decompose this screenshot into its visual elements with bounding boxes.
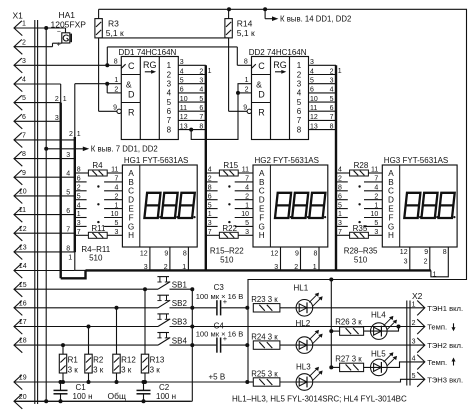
- connector X1 pin 16: [14, 300, 158, 315]
- DD2 data input wire (from DD1 pin13): [189, 84, 251, 140]
- net label "К выв. 14 DD1, DD2": [265, 9, 351, 23]
- resistors R15-R22 network rows: [206, 161, 253, 238]
- HG1 common pin stubs: [140, 247, 189, 271]
- svg-text:G: G: [259, 222, 265, 231]
- svg-text:2: 2: [114, 86, 118, 93]
- svg-text:8: 8: [314, 251, 318, 258]
- svg-text:3: 3: [167, 80, 172, 89]
- svg-text:1: 1: [297, 61, 302, 70]
- svg-text:8: 8: [114, 59, 118, 66]
- resistors R28-R35 network rows: [336, 161, 382, 238]
- bus A (pins 4-6 group line): [55, 96, 86, 278]
- LED HL3: [296, 363, 323, 391]
- svg-text:7: 7: [199, 114, 203, 121]
- svg-text:HL5: HL5: [371, 350, 386, 359]
- +5V top rail: [99, 7, 467, 382]
- svg-text:5: 5: [66, 189, 70, 196]
- svg-text:3 к: 3 к: [150, 365, 161, 374]
- svg-text:510: 510: [354, 255, 368, 264]
- wire HL3 jog to X2 pin5: [313, 379, 425, 382]
- connector X1 body lines: [34, 20, 36, 404]
- svg-text:4: 4: [22, 77, 26, 84]
- svg-text:12: 12: [140, 251, 148, 258]
- svg-text:R12: R12: [121, 356, 136, 365]
- svg-text:1: 1: [433, 271, 437, 278]
- wire R25 row: [247, 381, 253, 383]
- svg-text:1: 1: [63, 96, 67, 103]
- svg-text:1: 1: [77, 131, 81, 138]
- svg-text:R13: R13: [150, 356, 165, 365]
- HL4 wire jog to X2 pin2: [364, 327, 399, 332]
- capacitor C2 100n: [137, 380, 177, 403]
- resistor R2 3k: [85, 325, 104, 385]
- svg-text:1: 1: [313, 264, 317, 271]
- svg-text:RG: RG: [143, 60, 157, 70]
- svg-text:3: 3: [22, 58, 26, 65]
- svg-text:6: 6: [310, 87, 314, 94]
- capacitor C3 100uF: [192, 283, 247, 315]
- svg-text:9: 9: [243, 105, 247, 112]
- wire R26 feed: [331, 330, 339, 332]
- svg-text:7: 7: [167, 116, 172, 125]
- LED feed wire (+5V vertical): [245, 306, 249, 347]
- svg-text:HG1 FYT-5631AS: HG1 FYT-5631AS: [124, 156, 188, 165]
- DD1 output stubs and bus: [178, 59, 211, 270]
- svg-text:2: 2: [22, 39, 26, 46]
- svg-text:6: 6: [180, 87, 184, 94]
- svg-text:C1: C1: [76, 383, 87, 392]
- svg-text:&: &: [256, 79, 262, 89]
- ground net wire (pin1 vertical): [44, 26, 48, 403]
- svg-text:510: 510: [89, 254, 103, 263]
- connector X1 pin 6: [14, 114, 61, 129]
- svg-text:8: 8: [183, 251, 187, 258]
- svg-text:B: B: [259, 178, 265, 187]
- svg-text:C: C: [128, 61, 135, 71]
- svg-text:9: 9: [424, 249, 428, 256]
- svg-text:3 к: 3 к: [121, 365, 132, 374]
- svg-text:D: D: [259, 196, 265, 205]
- shift register DD2 74HC164N: [243, 48, 308, 139]
- svg-text:A: A: [259, 169, 265, 178]
- svg-text:13: 13: [310, 123, 318, 130]
- svg-text:7: 7: [330, 114, 334, 121]
- svg-text:C: C: [259, 187, 265, 196]
- connector X1 pin 20: [14, 394, 191, 409]
- resistor R1 3k: [59, 343, 78, 384]
- svg-text:D: D: [258, 89, 265, 99]
- svg-text:C: C: [388, 187, 394, 196]
- LED HL1: [294, 284, 323, 317]
- pushbutton SB2: [157, 295, 192, 308]
- resistors R4-R11 network rows: [75, 161, 123, 238]
- clock net wire (pin3 to DD1 C and DD2 C): [105, 47, 251, 67]
- svg-text:ТЭН1 вкл.: ТЭН1 вкл.: [427, 304, 463, 313]
- connector X1 pin 8: [14, 151, 75, 166]
- svg-text:R28: R28: [354, 161, 369, 170]
- svg-text:5: 5: [180, 78, 184, 85]
- svg-text:3: 3: [66, 152, 70, 159]
- svg-text:10: 10: [180, 96, 188, 103]
- svg-text:9: 9: [164, 251, 168, 258]
- svg-text:16: 16: [19, 300, 27, 307]
- connector X1 pin 15: [14, 282, 158, 297]
- svg-text:3 к: 3 к: [68, 365, 79, 374]
- svg-text:D: D: [128, 89, 135, 99]
- connector X1 pin 7: [14, 133, 75, 148]
- svg-text:1: 1: [114, 77, 118, 84]
- svg-text:4: 4: [330, 87, 334, 94]
- svg-text:5: 5: [330, 96, 334, 103]
- svg-text:8: 8: [66, 245, 70, 252]
- svg-text:12: 12: [271, 251, 279, 258]
- svg-text:HL3: HL3: [296, 363, 311, 372]
- resistor R12 3k: [113, 306, 137, 384]
- svg-text:4: 4: [199, 87, 203, 94]
- svg-text:3 к: 3 к: [93, 365, 104, 374]
- svg-text:X1: X1: [13, 11, 24, 21]
- svg-text:12: 12: [310, 114, 318, 121]
- svg-text:2: 2: [245, 86, 249, 93]
- HL5 wire jog to X2 pin4: [364, 362, 425, 368]
- svg-text:3: 3: [412, 339, 416, 346]
- svg-text:11: 11: [19, 207, 26, 214]
- svg-text:3: 3: [404, 258, 408, 265]
- svg-text:8: 8: [297, 125, 302, 134]
- svg-text:E: E: [128, 205, 134, 214]
- pushbutton SB1: [157, 277, 192, 290]
- pushbutton SB4: [157, 333, 192, 346]
- svg-text:10: 10: [310, 96, 318, 103]
- svg-text:C2: C2: [159, 383, 170, 392]
- svg-text:2: 2: [167, 70, 172, 79]
- svg-text:8: 8: [330, 123, 334, 130]
- svg-text:2: 2: [297, 70, 302, 79]
- svg-text:R: R: [258, 108, 265, 118]
- svg-text:R3: R3: [108, 18, 119, 28]
- svg-text:SB1: SB1: [172, 280, 188, 289]
- svg-text:ТЭН2 вкл.: ТЭН2 вкл.: [427, 341, 463, 350]
- svg-text:100 н: 100 н: [156, 392, 176, 401]
- LED HL4: [371, 311, 398, 340]
- svg-text:R: R: [128, 108, 135, 118]
- svg-text:D: D: [388, 196, 394, 205]
- svg-text:C: C: [258, 61, 265, 71]
- svg-text:SB3: SB3: [172, 318, 188, 327]
- resistor R23 3k: [251, 295, 280, 312]
- svg-text:К выв. 7 DD1, DD2: К выв. 7 DD1, DD2: [91, 144, 158, 153]
- resistor R25 3k: [251, 369, 280, 386]
- svg-text:12: 12: [400, 249, 408, 256]
- svg-text:5: 5: [199, 96, 203, 103]
- indicator HG3 FYT-5631AS: [382, 156, 457, 247]
- resistor R14 5,1k: [225, 9, 255, 38]
- svg-text:B: B: [388, 178, 394, 187]
- HG2 seven-segment digits: [275, 193, 326, 218]
- svg-text:12: 12: [19, 226, 27, 233]
- connector X1 pin 4: [14, 77, 61, 92]
- svg-text:HL4: HL4: [371, 311, 386, 320]
- svg-text:3: 3: [144, 264, 148, 271]
- svg-text:6: 6: [66, 208, 70, 215]
- resistor R3 5,1k: [95, 9, 124, 38]
- svg-text:2: 2: [55, 96, 59, 103]
- svg-text:4: 4: [310, 68, 314, 75]
- connector X2 pin 1: [412, 301, 464, 316]
- svg-text:19: 19: [19, 375, 27, 382]
- svg-text:R26 3 к: R26 3 к: [335, 317, 362, 326]
- resistor R27 3k: [335, 354, 363, 371]
- svg-text:ТЭН3 вкл.: ТЭН3 вкл.: [427, 375, 463, 384]
- svg-text:B: B: [128, 178, 134, 187]
- value label R28-R35 510: [344, 247, 378, 265]
- wire HL1 to X2 pin1: [280, 307, 425, 309]
- svg-text:13: 13: [19, 245, 27, 252]
- resistor R13 3k: [141, 287, 165, 384]
- svg-text:8: 8: [443, 249, 447, 256]
- svg-text:4: 4: [412, 355, 416, 362]
- connector X1 pin 2: [14, 39, 53, 54]
- svg-text:1: 1: [167, 61, 172, 70]
- svg-text:4: 4: [167, 89, 172, 98]
- indicator HG1 FYT-5631AS: [122, 156, 197, 247]
- svg-text:4: 4: [66, 171, 70, 178]
- svg-text:9: 9: [113, 105, 117, 112]
- svg-text:Темп.: Темп.: [427, 323, 447, 332]
- connector X1 pin 11: [14, 207, 75, 222]
- svg-text:8: 8: [167, 125, 172, 134]
- svg-text:R28–R35: R28–R35: [344, 247, 378, 256]
- LED HL2: [296, 319, 323, 353]
- svg-text:20: 20: [19, 394, 27, 401]
- svg-text:R22: R22: [222, 224, 237, 233]
- svg-text:DD2 74HC164N: DD2 74HC164N: [249, 48, 307, 57]
- svg-text:G: G: [128, 222, 134, 231]
- svg-text:2: 2: [164, 264, 168, 271]
- capacitor C1 100n: [54, 380, 93, 403]
- svg-text:R24 3 к: R24 3 к: [251, 332, 278, 341]
- svg-text:14: 14: [19, 263, 27, 270]
- svg-text:1: 1: [208, 68, 212, 75]
- buzzer HA1 1205FXP: [51, 10, 87, 48]
- svg-text:18: 18: [19, 338, 27, 345]
- +5V junction dot: [245, 380, 249, 384]
- svg-text:DD1 74HC164N: DD1 74HC164N: [119, 48, 177, 57]
- LED HL5: [371, 350, 398, 376]
- svg-text:10: 10: [19, 189, 27, 196]
- svg-text:F: F: [388, 213, 393, 222]
- svg-text:HL1: HL1: [294, 284, 309, 293]
- indicator HG2 FYT-5631AS: [253, 156, 328, 247]
- connector X1 pin 9: [14, 170, 75, 185]
- svg-text:3: 3: [297, 80, 302, 89]
- value label R15-R22 510: [210, 247, 244, 265]
- svg-text:C3: C3: [214, 283, 225, 292]
- svg-text:E: E: [388, 205, 394, 214]
- svg-text:F: F: [129, 213, 134, 222]
- HG3 seven-segment digits: [404, 193, 455, 218]
- HG2 common pin stubs: [271, 247, 320, 271]
- svg-text:6: 6: [167, 107, 172, 116]
- connector X1 pin 17: [14, 319, 158, 334]
- svg-text:H: H: [259, 231, 265, 240]
- svg-text:7: 7: [66, 227, 70, 234]
- DD2 output stubs and bus: [309, 59, 342, 270]
- svg-text:13: 13: [180, 123, 188, 130]
- svg-text:D: D: [128, 196, 134, 205]
- DD1 data input wire (pin4, D tie): [61, 82, 122, 137]
- wire R27 feed: [331, 366, 339, 368]
- value label R4-R11 510: [81, 245, 110, 263]
- connector X2 pin 3: [412, 338, 464, 353]
- svg-text:8: 8: [22, 151, 26, 158]
- connector X2 pin 4: [412, 355, 456, 370]
- resistor R26 3k: [335, 317, 363, 335]
- svg-text:2: 2: [412, 320, 416, 327]
- HG1 seven-segment digits: [144, 193, 195, 218]
- svg-text:SB2: SB2: [172, 299, 188, 308]
- svg-text:2: 2: [330, 68, 334, 75]
- svg-text:7: 7: [297, 116, 302, 125]
- svg-text:Общ: Общ: [108, 391, 126, 401]
- svg-text:H: H: [388, 231, 394, 240]
- svg-text:R11: R11: [91, 224, 106, 233]
- svg-text:15: 15: [19, 282, 27, 289]
- svg-text:8: 8: [199, 123, 203, 130]
- svg-text:SB4: SB4: [172, 336, 188, 345]
- svg-text:1: 1: [412, 301, 416, 308]
- pushbutton SB3: [157, 314, 192, 327]
- connector X2 pin 5: [412, 372, 464, 387]
- svg-text:2: 2: [424, 258, 428, 265]
- svg-text:5: 5: [297, 98, 302, 107]
- svg-text:100 мк × 16 В: 100 мк × 16 В: [196, 292, 244, 301]
- svg-text:17: 17: [19, 319, 27, 326]
- net label "К выв. 7 DD1, DD2": [46, 144, 158, 153]
- svg-text:2: 2: [294, 264, 298, 271]
- resistor R24 3k: [251, 332, 280, 349]
- svg-text:6: 6: [22, 114, 26, 121]
- shift register DD1 74HC164N: [113, 48, 178, 139]
- svg-text:R15–R22: R15–R22: [210, 247, 244, 256]
- connector X1 pin 3: [14, 58, 121, 73]
- svg-text:11: 11: [310, 105, 317, 112]
- svg-text:11: 11: [180, 105, 187, 112]
- svg-text:1: 1: [182, 264, 186, 271]
- svg-text:HL1–HL3, HL5 FYL-3014SRC; HL4: HL1–HL3, HL5 FYL-3014SRC; HL4 FYL-3014BC: [232, 394, 407, 403]
- svg-text:R4–R11: R4–R11: [81, 245, 110, 254]
- connector X1 pin 13: [14, 245, 75, 260]
- svg-text:HG3 FYT-5631AS: HG3 FYT-5631AS: [384, 156, 448, 165]
- buttons common wire to ground: [14, 287, 194, 401]
- svg-text:R27 3 к: R27 3 к: [335, 354, 362, 363]
- svg-text:G: G: [388, 222, 394, 231]
- svg-text:R4: R4: [92, 161, 103, 170]
- svg-text:A: A: [128, 169, 134, 178]
- svg-text:HG2 FYT-5631AS: HG2 FYT-5631AS: [255, 156, 319, 165]
- svg-text:−: −: [57, 28, 61, 35]
- connector X1 pin 10: [14, 189, 75, 204]
- svg-text:&: &: [126, 79, 132, 89]
- svg-text:5: 5: [22, 95, 26, 102]
- wire HL2 to X2 pin3: [280, 344, 425, 346]
- svg-text:R2: R2: [93, 356, 104, 365]
- svg-text:RG: RG: [273, 60, 287, 70]
- svg-text:5: 5: [412, 373, 416, 380]
- connector X1 pin 19: [14, 375, 247, 390]
- connector X2 body lines: [406, 301, 408, 386]
- connector X1 pin 14: [14, 263, 75, 278]
- capacitor C4 100uF: [192, 321, 247, 352]
- svg-text:5: 5: [310, 78, 314, 85]
- svg-text:3: 3: [310, 59, 314, 66]
- svg-text:R1: R1: [68, 356, 79, 365]
- HL4/HL5 feed wire: [329, 280, 333, 370]
- svg-text:R25 3 к: R25 3 к: [251, 369, 278, 378]
- svg-text:9: 9: [22, 170, 26, 177]
- connector X1 pin 1: [14, 21, 66, 36]
- svg-text:Темп.: Темп.: [427, 358, 447, 367]
- svg-text:6: 6: [330, 105, 334, 112]
- svg-text:A: A: [388, 169, 394, 178]
- svg-text:8: 8: [244, 59, 248, 66]
- svg-text:9: 9: [295, 251, 299, 258]
- svg-text:7: 7: [22, 133, 26, 140]
- svg-text:H: H: [128, 231, 134, 240]
- main group bus: [86, 269, 431, 271]
- svg-text:C: C: [128, 187, 134, 196]
- svg-text:510: 510: [220, 255, 234, 264]
- svg-text:E: E: [259, 205, 265, 214]
- svg-text:3: 3: [199, 78, 203, 85]
- svg-text:100 н: 100 н: [73, 392, 93, 401]
- svg-text:R35: R35: [353, 224, 368, 233]
- svg-text:+: +: [57, 41, 61, 48]
- svg-text:R23 3 к: R23 3 к: [251, 295, 278, 304]
- svg-text:2: 2: [199, 68, 203, 75]
- svg-text:4: 4: [297, 89, 302, 98]
- svg-text:3: 3: [180, 59, 184, 66]
- svg-text:3: 3: [274, 264, 278, 271]
- svg-text:1: 1: [338, 68, 342, 75]
- svg-text:К выв. 14 DD1, DD2: К выв. 14 DD1, DD2: [280, 14, 351, 23]
- HG3 common pin stubs: [400, 247, 449, 278]
- svg-text:100 мк × 16 В: 100 мк × 16 В: [196, 330, 244, 339]
- svg-text:5,1 к: 5,1 к: [106, 28, 124, 38]
- svg-text:6: 6: [199, 105, 203, 112]
- svg-text:3: 3: [55, 115, 59, 122]
- svg-text:1: 1: [68, 254, 72, 261]
- svg-text:3: 3: [330, 78, 334, 85]
- connector X1 pin 5: [14, 95, 61, 110]
- bus B (pins 7-13 group line): [66, 131, 86, 270]
- svg-text:R14: R14: [237, 18, 253, 28]
- svg-text:1: 1: [245, 77, 249, 84]
- svg-text:1: 1: [22, 21, 26, 28]
- svg-text:5: 5: [167, 98, 172, 107]
- connector X2 pin 2: [412, 319, 456, 334]
- connector X1 pin 18: [14, 338, 158, 353]
- reset net wires (R3/R14 to R inputs): [99, 38, 248, 111]
- svg-text:R15: R15: [223, 161, 238, 170]
- svg-text:+5 В: +5 В: [209, 373, 226, 382]
- wire SB3 row to X2 pin2: [192, 326, 424, 328]
- connector X1 pin 12: [14, 226, 75, 241]
- svg-text:6: 6: [297, 107, 302, 116]
- svg-text:F: F: [259, 213, 264, 222]
- svg-text:X2: X2: [412, 291, 423, 301]
- svg-text:12: 12: [180, 114, 188, 121]
